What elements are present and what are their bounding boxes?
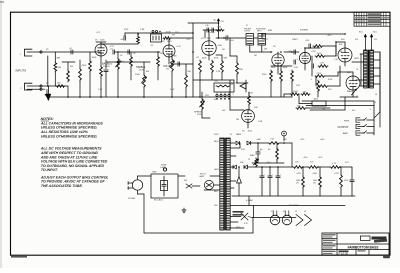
- svg-text:SPKR: SPKR: [344, 121, 350, 123]
- svg-text:4.7K: 4.7K: [332, 163, 337, 165]
- svg-text:1.5K: 1.5K: [320, 63, 325, 65]
- svg-text:+172: +172: [96, 32, 100, 34]
- svg-text:BLU: BLU: [359, 32, 363, 34]
- svg-text:330K: 330K: [271, 67, 276, 69]
- svg-text:PWR: PWR: [214, 134, 219, 136]
- svg-text:2W: 2W: [313, 182, 316, 184]
- svg-text:BLU: BLU: [373, 32, 377, 34]
- svg-text:20: 20: [248, 159, 250, 161]
- svg-text:250K: 250K: [197, 114, 202, 116]
- svg-text:76: 76: [356, 69, 358, 71]
- svg-text:16: 16: [375, 94, 377, 96]
- svg-text:+440: +440: [303, 157, 307, 159]
- svg-text:P.01: P.01: [345, 162, 349, 164]
- svg-text:+178: +178: [174, 32, 178, 34]
- svg-text:C.B.: C.B.: [205, 25, 209, 27]
- svg-text:.02: .02: [69, 48, 72, 50]
- svg-text:2 AMP: 2 AMP: [160, 166, 166, 169]
- svg-text:100K: 100K: [293, 91, 298, 93]
- svg-text:+170: +170: [186, 39, 190, 41]
- svg-text:F-1A-09: F-1A-09: [339, 252, 349, 256]
- svg-text:220K: 220K: [317, 53, 322, 55]
- svg-text:1M: 1M: [264, 49, 267, 51]
- svg-text:7025: 7025: [207, 38, 211, 40]
- svg-text:50K: 50K: [240, 162, 244, 164]
- svg-text:1M: 1M: [254, 55, 257, 57]
- svg-text:425: 425: [374, 39, 377, 41]
- svg-text:1.5V: 1.5V: [98, 89, 103, 91]
- svg-text:GRN: GRN: [354, 58, 359, 60]
- svg-text:425: 425: [355, 39, 358, 41]
- svg-text:250K: 250K: [139, 70, 144, 72]
- svg-text:1.5V: 1.5V: [170, 89, 175, 91]
- svg-text:SW: SW: [184, 180, 187, 182]
- svg-text:+168: +168: [120, 39, 124, 41]
- svg-text:100K: 100K: [214, 58, 219, 60]
- svg-text:5AR4: 5AR4: [236, 133, 242, 136]
- svg-text:FAIRBOTTOM BASS: FAIRBOTTOM BASS: [348, 245, 379, 249]
- svg-text:47K: 47K: [303, 92, 307, 94]
- svg-text:220K: 220K: [239, 69, 244, 71]
- svg-text:68K: 68K: [58, 67, 62, 69]
- svg-text:2W: 2W: [172, 35, 175, 37]
- svg-text:TO INPUT.: TO INPUT.: [41, 168, 59, 172]
- svg-text:GRN: GRN: [214, 169, 219, 171]
- svg-text:10K: 10K: [254, 107, 258, 109]
- svg-text:3.3M: 3.3M: [140, 29, 145, 31]
- svg-text:1M: 1M: [222, 49, 225, 51]
- svg-text:470K: 470K: [262, 74, 267, 76]
- svg-text:RED: RED: [214, 141, 219, 143]
- svg-text:100K: 100K: [92, 57, 97, 59]
- svg-text:V2: V2: [283, 211, 285, 213]
- svg-text:TO HTRS: TO HTRS: [289, 205, 299, 207]
- svg-text:2.2M: 2.2M: [258, 121, 263, 123]
- svg-text:47: 47: [246, 25, 248, 27]
- svg-text:2W: 2W: [296, 182, 299, 184]
- svg-text:250K: 250K: [135, 74, 140, 76]
- svg-text:+425: +425: [318, 157, 322, 159]
- svg-text:117VAC: 117VAC: [128, 197, 136, 200]
- svg-text:THE ASSOCIATED TUBE.: THE ASSOCIATED TUBE.: [41, 184, 83, 188]
- svg-text:1M: 1M: [236, 119, 239, 121]
- svg-text:LAMP: LAMP: [199, 175, 205, 178]
- svg-text:8: 8: [375, 102, 376, 104]
- svg-text:470K: 470K: [124, 29, 129, 31]
- svg-text:12AX7: 12AX7: [292, 38, 298, 41]
- svg-text:330K: 330K: [283, 67, 288, 69]
- svg-text:+440: +440: [266, 162, 270, 164]
- svg-text:470K: 470K: [82, 65, 87, 67]
- svg-text:57: 57: [356, 96, 358, 98]
- svg-text:OUTPUT: OUTPUT: [244, 30, 250, 32]
- svg-text:UNLESS OTHERWISE SPECIFIED.: UNLESS OTHERWISE SPECIFIED.: [41, 134, 98, 138]
- svg-text:SCREEN: SCREEN: [300, 30, 309, 32]
- svg-text:INPUT: INPUT: [257, 30, 262, 32]
- svg-text:+92: +92: [150, 45, 153, 47]
- svg-text:V3: V3: [295, 211, 297, 213]
- svg-text:1M: 1M: [174, 56, 177, 58]
- svg-text:4: 4: [370, 109, 371, 111]
- svg-text:220K: 220K: [317, 73, 322, 75]
- svg-text:BRN: BRN: [268, 30, 273, 32]
- svg-text:1.5K: 1.5K: [270, 139, 275, 141]
- svg-text:SLO-BLO: SLO-BLO: [154, 200, 163, 202]
- svg-text:10K: 10K: [146, 71, 150, 73]
- svg-text:1.5K: 1.5K: [294, 67, 299, 69]
- svg-text:V4: V4: [304, 211, 306, 213]
- svg-text:OUTPUT: OUTPUT: [338, 125, 349, 129]
- svg-text:1.5K: 1.5K: [216, 71, 221, 73]
- svg-text:56K: 56K: [224, 58, 228, 60]
- svg-text:1M: 1M: [70, 66, 73, 68]
- svg-text:BIAS: BIAS: [347, 90, 352, 93]
- svg-text:BLK: BLK: [214, 191, 219, 193]
- svg-text:+205: +205: [305, 40, 309, 42]
- svg-text:68K: 68K: [57, 58, 61, 60]
- svg-text:56K: 56K: [297, 106, 301, 108]
- svg-text:RED: RED: [236, 227, 241, 229]
- svg-text:V1: V1: [271, 211, 273, 213]
- svg-text:12AX7: 12AX7: [262, 38, 268, 41]
- svg-text:AMP: AMP: [343, 132, 348, 135]
- svg-text:.1: .1: [232, 94, 234, 96]
- svg-text:6.3VAC: 6.3VAC: [246, 199, 254, 202]
- svg-text:BIAS: BIAS: [250, 154, 255, 157]
- svg-text:100K: 100K: [202, 58, 207, 60]
- svg-text:INPUTS: INPUTS: [16, 69, 27, 73]
- svg-text:220K: 220K: [248, 93, 253, 95]
- svg-text:+425: +425: [327, 35, 331, 37]
- svg-text:+440: +440: [320, 139, 324, 141]
- svg-text:OSC: OSC: [214, 81, 219, 83]
- svg-text:470K: 470K: [328, 79, 333, 81]
- svg-text:GND: GND: [152, 172, 157, 174]
- svg-text:+455: +455: [300, 139, 304, 141]
- svg-text:1M: 1M: [166, 69, 169, 71]
- svg-text:100: 100: [322, 109, 325, 111]
